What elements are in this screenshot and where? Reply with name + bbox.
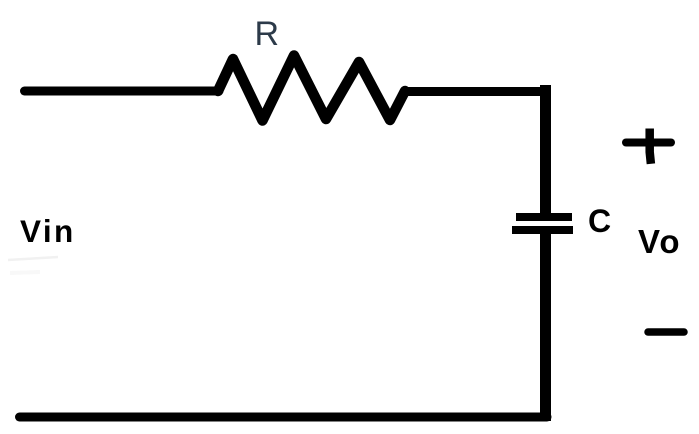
wire input top-left [25,87,220,96]
svg-text:Vin: Vin [20,213,76,249]
polarity minus [648,328,684,336]
polarity plus [626,129,671,164]
resistor R [218,56,405,121]
capacitor C top plate [516,213,572,221]
wire vertical bottom stem [540,234,551,421]
stray faint smudge [8,257,58,273]
wire bottom return [20,413,548,422]
svg-text:Vo: Vo [638,223,681,260]
capacitor C bottom plate [512,226,573,234]
wire resistor to top-right corner [405,87,551,96]
wire vertical top stem [540,85,551,214]
svg-text:R: R [255,15,280,53]
svg-text:C: C [588,203,611,239]
